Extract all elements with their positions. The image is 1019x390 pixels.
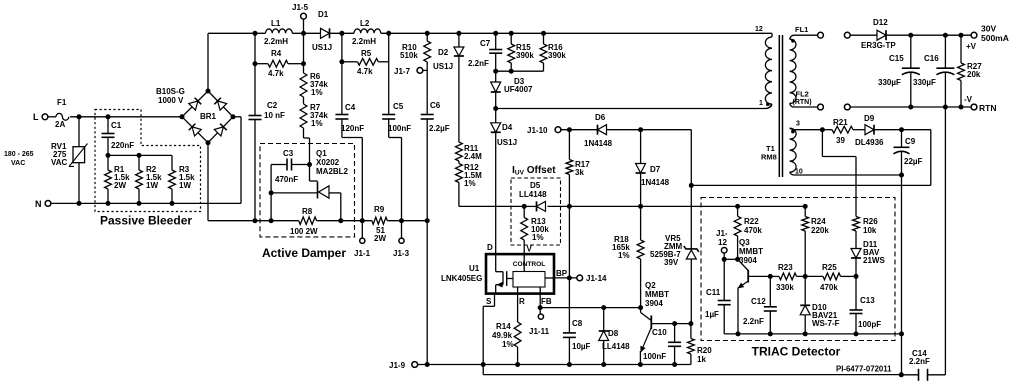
transistor Q2 MMBT3904 <box>640 308 642 313</box>
svg-text:21WS: 21WS <box>863 256 885 265</box>
svg-text:2W: 2W <box>114 181 126 190</box>
diode D3 UF4007 <box>495 71 497 82</box>
terminal J1-7 <box>426 62 428 70</box>
capacitor C15 330uF <box>910 35 912 68</box>
node J1-1 <box>360 218 365 223</box>
svg-text:2.2mH: 2.2mH <box>352 37 376 46</box>
node R2 top <box>137 153 142 158</box>
node R27 bottom <box>959 105 964 110</box>
svg-text:330µF: 330µF <box>913 78 936 87</box>
svg-text:1%: 1% <box>618 251 630 260</box>
node C15 top <box>908 33 913 38</box>
svg-text:10k: 10k <box>863 226 877 235</box>
resistor R5 4.7k <box>342 61 358 63</box>
svg-text:1%: 1% <box>532 233 544 242</box>
node R5 left <box>339 59 344 64</box>
svg-text:B10S-G: B10S-G <box>156 87 185 96</box>
svg-text:J1-9: J1-9 <box>389 361 406 370</box>
bridge diode bottom-left <box>192 127 201 136</box>
svg-text:3: 3 <box>796 121 800 128</box>
wire D3 to primary node <box>495 93 497 109</box>
svg-text:C2: C2 <box>267 101 278 110</box>
node J1-3 <box>399 218 404 223</box>
diode D7 1N4148 <box>640 130 642 164</box>
wire primary pin1 <box>496 108 766 110</box>
wire C9 column down <box>901 175 903 334</box>
node C3-R8 junction <box>269 190 274 195</box>
wire R12 to bias row <box>458 183 460 207</box>
svg-text:Q2: Q2 <box>645 281 656 290</box>
svg-text:C6: C6 <box>430 101 441 110</box>
svg-text:C13: C13 <box>860 296 875 305</box>
terminal J1-14 <box>577 275 583 281</box>
svg-text:120nF: 120nF <box>341 124 364 133</box>
node R4 left <box>253 61 258 66</box>
bias row right segment <box>569 205 737 207</box>
svg-text:BP: BP <box>556 269 568 278</box>
node J1-12 <box>722 257 727 262</box>
terminal output + <box>844 32 850 38</box>
svg-text:R23: R23 <box>778 263 793 272</box>
svg-text:39V: 39V <box>664 258 679 267</box>
wire C7-R15-R16 bottoms <box>496 70 544 72</box>
resistor R13 100k 1% <box>523 206 525 217</box>
svg-text:WS-7-F: WS-7-F <box>812 319 840 328</box>
node R17 top <box>567 127 572 132</box>
svg-text:2.2nF: 2.2nF <box>468 59 489 68</box>
wire bridge top to rail <box>207 33 209 91</box>
wire L2 right <box>381 32 772 34</box>
svg-text:1N4148: 1N4148 <box>641 178 670 187</box>
wire F1 to bridge <box>70 116 182 118</box>
varistor RV1 275 VAC <box>78 117 80 147</box>
svg-text:ER3G-TP: ER3G-TP <box>861 41 896 50</box>
svg-text:BR1: BR1 <box>200 112 217 121</box>
node D7 bottom <box>638 204 643 209</box>
svg-text:D12: D12 <box>873 18 888 27</box>
terminal J1-11 <box>539 308 541 314</box>
resistor R14 49.9k 1% <box>517 294 519 322</box>
resistor R26 10k <box>853 217 860 232</box>
svg-text:R20: R20 <box>697 346 712 355</box>
inductor L1 2.2mH <box>266 29 293 33</box>
resistor R10 510k <box>426 33 428 41</box>
node FB <box>538 305 543 310</box>
svg-text:100pF: 100pF <box>858 320 881 329</box>
node aux return <box>899 331 904 336</box>
Passive Bleeder dashed box <box>95 110 201 212</box>
svg-text:1µF: 1µF <box>705 310 719 319</box>
node return to C6 column <box>425 218 430 223</box>
node J1-5 <box>301 31 306 36</box>
node R8 left <box>269 218 274 223</box>
svg-text:R14: R14 <box>496 322 511 331</box>
node R15 bottom <box>509 69 514 74</box>
J1-9 ground row <box>418 364 691 366</box>
svg-text:X0202: X0202 <box>316 158 340 167</box>
svg-text:39: 39 <box>836 136 845 145</box>
node C9 top <box>899 127 904 132</box>
node R13 top <box>522 204 527 209</box>
svg-text:C3: C3 <box>283 149 294 158</box>
terminal J1-1 <box>361 221 363 238</box>
node C1 top <box>106 114 111 119</box>
resistor R12 1.5M 1% <box>458 161 460 164</box>
terminal J1-5 <box>303 19 305 33</box>
diode D2 US1J <box>458 33 460 47</box>
svg-text:LL4148: LL4148 <box>519 190 547 199</box>
svg-text:LNK405EG: LNK405EG <box>441 274 482 283</box>
resistor R22 470k <box>737 206 739 216</box>
svg-text:J1-5: J1-5 <box>292 3 309 12</box>
capacitor C11 1uF <box>723 259 725 300</box>
svg-text:20k: 20k <box>967 70 981 79</box>
svg-text:390k: 390k <box>548 51 566 60</box>
svg-text:J1-3: J1-3 <box>393 249 410 258</box>
svg-text:FL2: FL2 <box>796 90 809 99</box>
transformer core <box>778 35 780 177</box>
node primary return <box>493 106 498 111</box>
svg-text:49.9k: 49.9k <box>492 331 513 340</box>
node R24 top <box>803 204 808 209</box>
svg-text:D2: D2 <box>438 48 449 57</box>
svg-text:US1J: US1J <box>433 62 453 71</box>
resistor R1 1.5k 2W <box>107 155 109 170</box>
svg-text:470k: 470k <box>744 226 762 235</box>
wire aux pin10 <box>790 172 794 175</box>
svg-text:R9: R9 <box>374 205 385 214</box>
node D8 top <box>601 305 606 310</box>
node aux R21 <box>820 127 825 132</box>
node D10 gnd <box>803 331 808 336</box>
node C10 gnd <box>672 362 677 367</box>
node L1 left <box>253 31 258 36</box>
U1 internal connections <box>523 254 525 271</box>
svg-text:D7: D7 <box>650 165 661 174</box>
svg-text:12: 12 <box>718 238 727 247</box>
svg-text:30V: 30V <box>981 24 996 34</box>
wire aux pin3 <box>790 128 794 129</box>
aux positive loop <box>930 130 932 186</box>
transistor Q3 MMBT3904 <box>738 259 749 270</box>
node R16 top <box>541 31 546 36</box>
svg-text:100 2W: 100 2W <box>290 227 318 236</box>
svg-text:CONTROL: CONTROL <box>513 261 546 268</box>
svg-text:510k: 510k <box>400 51 418 60</box>
N row wire <box>51 202 241 204</box>
svg-text:RM8: RM8 <box>761 153 777 162</box>
svg-text:1%: 1% <box>502 340 514 349</box>
node R1 bottom <box>106 201 111 206</box>
svg-text:R8: R8 <box>302 207 313 216</box>
TRIAC detector ground bus <box>724 333 901 335</box>
node C8 gnd <box>567 362 572 367</box>
terminal J1-12 <box>721 248 727 254</box>
bleeder top wire <box>108 154 172 156</box>
wire J1-12 to collector node <box>723 253 725 259</box>
svg-text:D8: D8 <box>608 329 619 338</box>
capacitor C12 2.2nF <box>769 276 771 306</box>
wire R7 column into SBS <box>309 165 311 182</box>
svg-text:US1J: US1J <box>312 43 332 52</box>
wire R17 column to BP <box>568 206 570 278</box>
bridge corner dots <box>180 114 185 119</box>
svg-text:2.2mH: 2.2mH <box>264 37 288 46</box>
node L2 left <box>339 31 344 36</box>
capacitor C9 22uF <box>901 130 903 148</box>
wire R9 right <box>387 220 427 222</box>
top rail left segment <box>208 32 266 34</box>
Active Damper dashed box <box>260 144 355 237</box>
diode D6 1N4148 <box>598 125 607 135</box>
svg-text:C8: C8 <box>572 319 583 328</box>
svg-text:J1-: J1- <box>716 229 728 238</box>
terminal output - <box>844 104 850 110</box>
resistor R11 2.4M <box>458 57 460 143</box>
svg-text:U1: U1 <box>469 264 480 273</box>
svg-text:US1J: US1J <box>497 138 517 147</box>
svg-text:470k: 470k <box>820 283 838 292</box>
svg-text:2W: 2W <box>374 234 386 243</box>
node Q3 emitter gnd <box>736 331 741 336</box>
node R10 top <box>425 31 430 36</box>
svg-text:C1: C1 <box>111 121 122 130</box>
terminal L <box>42 114 48 120</box>
capacitor C7 2.2nF <box>495 33 497 49</box>
wire D9 to C9 <box>874 129 931 131</box>
aux phase dot <box>791 130 795 134</box>
node L2 right <box>386 31 391 36</box>
svg-text:2.4M: 2.4M <box>464 152 482 161</box>
bridge diode top-left <box>189 101 198 110</box>
node BP <box>567 275 572 280</box>
node C16 top <box>943 33 948 38</box>
svg-text:D1: D1 <box>318 10 329 19</box>
svg-text:C9: C9 <box>905 137 916 146</box>
svg-text:330µF: 330µF <box>878 78 901 87</box>
Iuv Offset dashed box <box>511 178 561 245</box>
node C7 bottom <box>493 69 498 74</box>
wire bridge right to N <box>233 116 241 118</box>
wire bridge bottom to return row <box>207 143 209 221</box>
primary phase dot <box>766 102 770 106</box>
node R2 bottom <box>137 201 142 206</box>
svg-text:J1-7: J1-7 <box>394 67 411 76</box>
svg-text:D: D <box>487 243 493 252</box>
svg-text:MMBT: MMBT <box>645 290 669 299</box>
capacitor C5 100nF <box>388 62 390 115</box>
node R15 top <box>509 31 514 36</box>
svg-text:L2: L2 <box>360 19 370 28</box>
terminal 30V <box>971 32 977 38</box>
node Q2 collector C10 <box>672 321 677 326</box>
svg-text:1%: 1% <box>464 179 476 188</box>
diode D4 US1J <box>495 109 497 123</box>
IC U1 LNK405EG <box>486 254 554 294</box>
wire TRIAC sense from pin3 <box>821 130 823 157</box>
svg-text:R5: R5 <box>361 49 372 58</box>
resistor R8 100 2W <box>299 217 317 224</box>
node C7 top <box>493 31 498 36</box>
svg-text:C7: C7 <box>480 39 491 48</box>
svg-text:100nF: 100nF <box>388 124 411 133</box>
bridge diode bottom-right <box>214 127 223 136</box>
svg-text:1%: 1% <box>311 119 323 128</box>
bias row to R24 <box>738 205 806 207</box>
capacitor C10 100nF <box>674 324 676 343</box>
resistor R15 390k <box>510 33 512 44</box>
svg-text:RTN: RTN <box>979 103 996 113</box>
capacitor C1 220nF <box>107 117 109 134</box>
svg-text:2.2µF: 2.2µF <box>429 124 450 133</box>
node S gnd <box>481 362 486 367</box>
node D8 gnd <box>601 362 606 367</box>
node R14 gnd <box>515 362 520 367</box>
resistor R17 3k <box>568 130 570 160</box>
fuse F1 2A <box>56 113 69 120</box>
node Q2 base <box>638 305 643 310</box>
svg-text:R21: R21 <box>833 118 848 127</box>
svg-text:C11: C11 <box>706 288 721 297</box>
transformer secondary winding FL1-FL2 <box>790 39 796 103</box>
svg-text:Q1: Q1 <box>316 149 327 158</box>
node R17 bias <box>567 204 572 209</box>
svg-text:4.7k: 4.7k <box>357 67 373 76</box>
capacitor C4 120nF <box>341 62 343 115</box>
capacitor C8 10uF <box>568 278 570 333</box>
wire R5 branch <box>341 33 343 62</box>
resistor R23 330k <box>779 273 797 280</box>
node D7 top <box>638 127 643 132</box>
svg-text:C16: C16 <box>924 54 939 63</box>
svg-text:Active Damper: Active Damper <box>262 246 346 260</box>
svg-text:FL1: FL1 <box>795 25 808 34</box>
svg-text:VAC: VAC <box>11 160 25 167</box>
svg-text:N: N <box>35 199 42 209</box>
svg-text:C15: C15 <box>889 54 904 63</box>
svg-text:C5: C5 <box>393 102 404 111</box>
svg-text:330k: 330k <box>776 283 794 292</box>
node D11 bottom <box>854 274 859 279</box>
svg-text:-V: -V <box>964 95 973 104</box>
svg-text:500mA: 500mA <box>981 33 1009 43</box>
node R20 top <box>688 321 693 326</box>
node C3 right <box>307 162 312 167</box>
svg-text:470nF: 470nF <box>275 175 298 184</box>
svg-text:PI-6477-072011: PI-6477-072011 <box>836 365 892 374</box>
svg-text:2A: 2A <box>55 120 65 129</box>
node C12 top <box>768 274 773 279</box>
resistor R3 1.5k 1W <box>171 155 173 170</box>
wire D6 to aux <box>607 129 692 131</box>
node RV1 bottom <box>77 201 82 206</box>
svg-text:J1-1: J1-1 <box>354 249 371 258</box>
svg-text:R4: R4 <box>271 49 282 58</box>
node C6 gnd <box>425 362 430 367</box>
resistor R2 1.5k 1W <box>138 155 140 170</box>
wire rail to R4 row <box>254 33 256 63</box>
svg-text:220nF: 220nF <box>111 141 134 150</box>
svg-text:MMBT: MMBT <box>739 247 763 256</box>
svg-text:TRIAC Detector: TRIAC Detector <box>752 345 841 359</box>
svg-text:VAC: VAC <box>51 158 68 167</box>
node C9 bottom <box>899 173 904 178</box>
svg-text:DL4936: DL4936 <box>855 138 884 147</box>
svg-text:C12: C12 <box>751 297 766 306</box>
wire RTN down to C14 <box>944 107 946 375</box>
node R27 top <box>959 33 964 38</box>
node RV1 top <box>77 114 82 119</box>
svg-text:3k: 3k <box>575 168 584 177</box>
svg-text:D6: D6 <box>595 113 606 122</box>
svg-text:1%: 1% <box>311 88 323 97</box>
svg-text:1W: 1W <box>146 181 158 190</box>
svg-text:12: 12 <box>755 26 763 33</box>
node R22 top <box>735 204 740 209</box>
terminal FL2 <box>794 106 818 108</box>
svg-text:J1-11: J1-11 <box>529 327 550 336</box>
svg-text:390k: 390k <box>516 51 534 60</box>
capacitor C6 2.2uF <box>426 70 428 114</box>
transformer T1 RM8 primary winding <box>771 33 773 37</box>
wire J1-10 to R17 node <box>561 129 598 131</box>
wire L1 to J1-5 node <box>292 32 320 34</box>
node C13 gnd <box>854 331 859 336</box>
svg-text:1N4148: 1N4148 <box>584 139 613 148</box>
svg-text:F1: F1 <box>57 98 67 107</box>
node R1 top <box>106 153 111 158</box>
svg-text:R25: R25 <box>822 263 837 272</box>
secondary phase dot <box>791 39 795 43</box>
svg-text:3904: 3904 <box>645 299 663 308</box>
svg-text:2.2nF: 2.2nF <box>743 317 764 326</box>
resistor R18 165k 1% <box>640 206 642 240</box>
svg-text:+V: +V <box>966 42 977 51</box>
svg-text:R22: R22 <box>744 217 759 226</box>
resistor R25 470k <box>823 273 841 280</box>
diode D11 BAV21WS <box>855 231 857 249</box>
svg-text:1: 1 <box>759 100 763 107</box>
U1 internal mosfet <box>495 254 497 272</box>
svg-text:100nF: 100nF <box>643 352 666 361</box>
svg-text:R26: R26 <box>863 217 878 226</box>
terminal FL1 <box>794 34 818 36</box>
TRIAC Detector dashed box <box>701 198 895 341</box>
terminal J1-3 <box>401 221 403 238</box>
svg-text:V: V <box>527 245 533 254</box>
node R4 right <box>301 61 306 66</box>
node R24 bottom <box>803 274 808 279</box>
svg-text:MA2BL2: MA2BL2 <box>316 167 349 176</box>
svg-text:J1-14: J1-14 <box>586 274 607 283</box>
diode D8 LL4148 <box>603 308 605 341</box>
svg-text:C4: C4 <box>345 103 356 112</box>
SBS Q1 X0202 MA2BL2 <box>317 182 319 199</box>
svg-text:10µF: 10µF <box>572 342 591 351</box>
wire S pin to ground <box>494 294 496 307</box>
terminal J1-9 <box>412 362 418 368</box>
node R3 bottom <box>170 201 175 206</box>
capacitor C14 2.2nF <box>901 374 918 376</box>
svg-text:R: R <box>519 297 525 306</box>
node Q3 collector <box>735 257 740 262</box>
wire C6 to J1-9 row <box>426 221 428 365</box>
diode D10 BAV21 WS-7-F <box>804 276 806 305</box>
terminal RTN <box>971 104 977 110</box>
resistor R7 374k 1% <box>303 97 305 104</box>
node C16 bottom <box>943 105 948 110</box>
bridge diode top-right <box>218 101 227 110</box>
